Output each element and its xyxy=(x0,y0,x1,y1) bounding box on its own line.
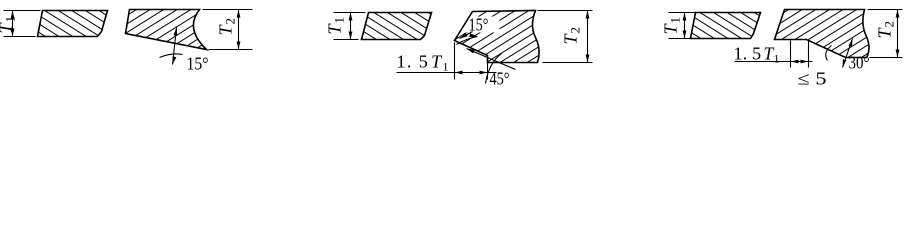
svg-text:≤ 5: ≤ 5 xyxy=(798,69,827,89)
svg-text:T1: T1 xyxy=(0,16,18,34)
svg-text:1. 5T1: 1. 5T1 xyxy=(397,52,450,74)
svg-text:1. 5T1: 1. 5T1 xyxy=(734,44,780,66)
svg-text:45°: 45° xyxy=(490,69,510,89)
svg-text:30°: 30° xyxy=(849,53,870,73)
svg-text:15°: 15° xyxy=(187,54,209,74)
